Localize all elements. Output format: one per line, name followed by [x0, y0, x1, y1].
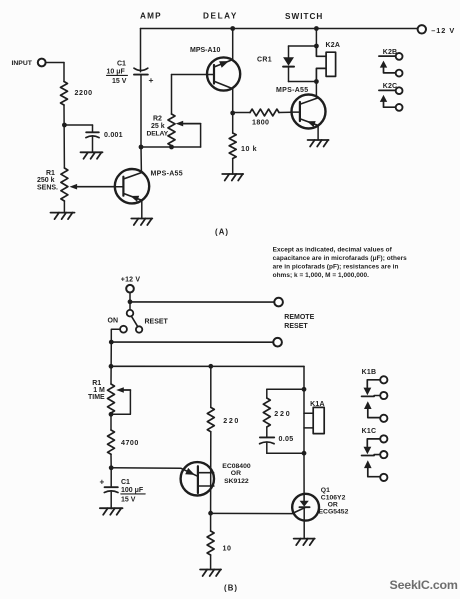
svg-text:15 V: 15 V [121, 497, 136, 504]
svg-text:ON: ON [108, 318, 119, 325]
svg-text:MPS-A55: MPS-A55 [276, 87, 308, 94]
svg-text:0.001: 0.001 [104, 131, 123, 139]
svg-text:0.05: 0.05 [279, 435, 294, 443]
svg-text:REMOTE: REMOTE [284, 314, 314, 321]
svg-text:10 k: 10 k [241, 145, 257, 153]
svg-text:15 V: 15 V [112, 78, 127, 85]
svg-text:ECG5452: ECG5452 [319, 509, 349, 516]
svg-text:DELAY: DELAY [147, 131, 169, 138]
svg-text:C1: C1 [121, 479, 130, 486]
svg-text:K1C: K1C [362, 428, 377, 435]
svg-text:AMP: AMP [140, 12, 162, 21]
svg-text:EC08400: EC08400 [222, 463, 251, 470]
svg-text:SK9122: SK9122 [224, 478, 249, 485]
svg-text:10: 10 [223, 545, 232, 553]
svg-text:K1B: K1B [362, 369, 377, 376]
svg-text:220: 220 [274, 410, 291, 418]
svg-text:1800: 1800 [252, 119, 269, 127]
svg-text:are in picofarads (pF); resist: are in picofarads (pF); resistances are … [273, 264, 399, 271]
svg-text:INPUT: INPUT [12, 60, 33, 67]
svg-text:Except as indicated, decimal v: Except as indicated, decimal values of [273, 246, 393, 253]
svg-text:25 k: 25 k [151, 123, 165, 130]
svg-text:OR: OR [328, 502, 338, 509]
svg-text:10 μF: 10 μF [107, 69, 126, 76]
svg-text:MPS-A55: MPS-A55 [151, 171, 183, 178]
svg-text:SENS.: SENS. [37, 184, 58, 191]
svg-text:OR: OR [231, 470, 241, 477]
svg-text:(A): (A) [215, 227, 229, 236]
svg-text:SWITCH: SWITCH [285, 12, 323, 21]
svg-text:RESET: RESET [284, 323, 308, 330]
svg-text:R1: R1 [46, 170, 55, 177]
svg-text:2200: 2200 [75, 89, 93, 97]
svg-text:4700: 4700 [121, 439, 139, 447]
svg-text:R1: R1 [92, 380, 101, 387]
svg-text:SeekIC.com: SeekIC.com [390, 578, 458, 592]
svg-text:250 k: 250 k [37, 177, 55, 184]
svg-text:(B): (B) [224, 584, 238, 593]
svg-text:+: + [149, 75, 154, 85]
svg-text:–12 V: –12 V [431, 26, 455, 35]
svg-text:R2: R2 [153, 116, 162, 123]
svg-text:K1A: K1A [310, 401, 325, 408]
svg-text:TIME: TIME [88, 394, 105, 401]
svg-text:MPS-A10: MPS-A10 [190, 47, 220, 54]
svg-text:CR1: CR1 [257, 57, 272, 64]
svg-text:C106Y2: C106Y2 [321, 495, 346, 502]
svg-text:1 M: 1 M [93, 387, 105, 394]
svg-text:ohms; k = 1,000, M = 1,000: ohms; k = 1,000, M = 1,000,000. [273, 272, 370, 279]
svg-text:+12 V: +12 V [121, 277, 141, 284]
svg-text:Q1: Q1 [321, 487, 330, 494]
svg-text:K2A: K2A [326, 42, 341, 49]
svg-text:+: + [100, 478, 105, 487]
svg-text:DELAY: DELAY [203, 12, 238, 21]
svg-text:C1: C1 [117, 61, 126, 68]
svg-text:RESET: RESET [145, 318, 169, 325]
svg-text:220: 220 [223, 417, 240, 425]
svg-text:100 μF: 100 μF [121, 487, 144, 494]
svg-text:capacitance are in microfarads: capacitance are in microfarads (μF); oth… [273, 255, 408, 262]
